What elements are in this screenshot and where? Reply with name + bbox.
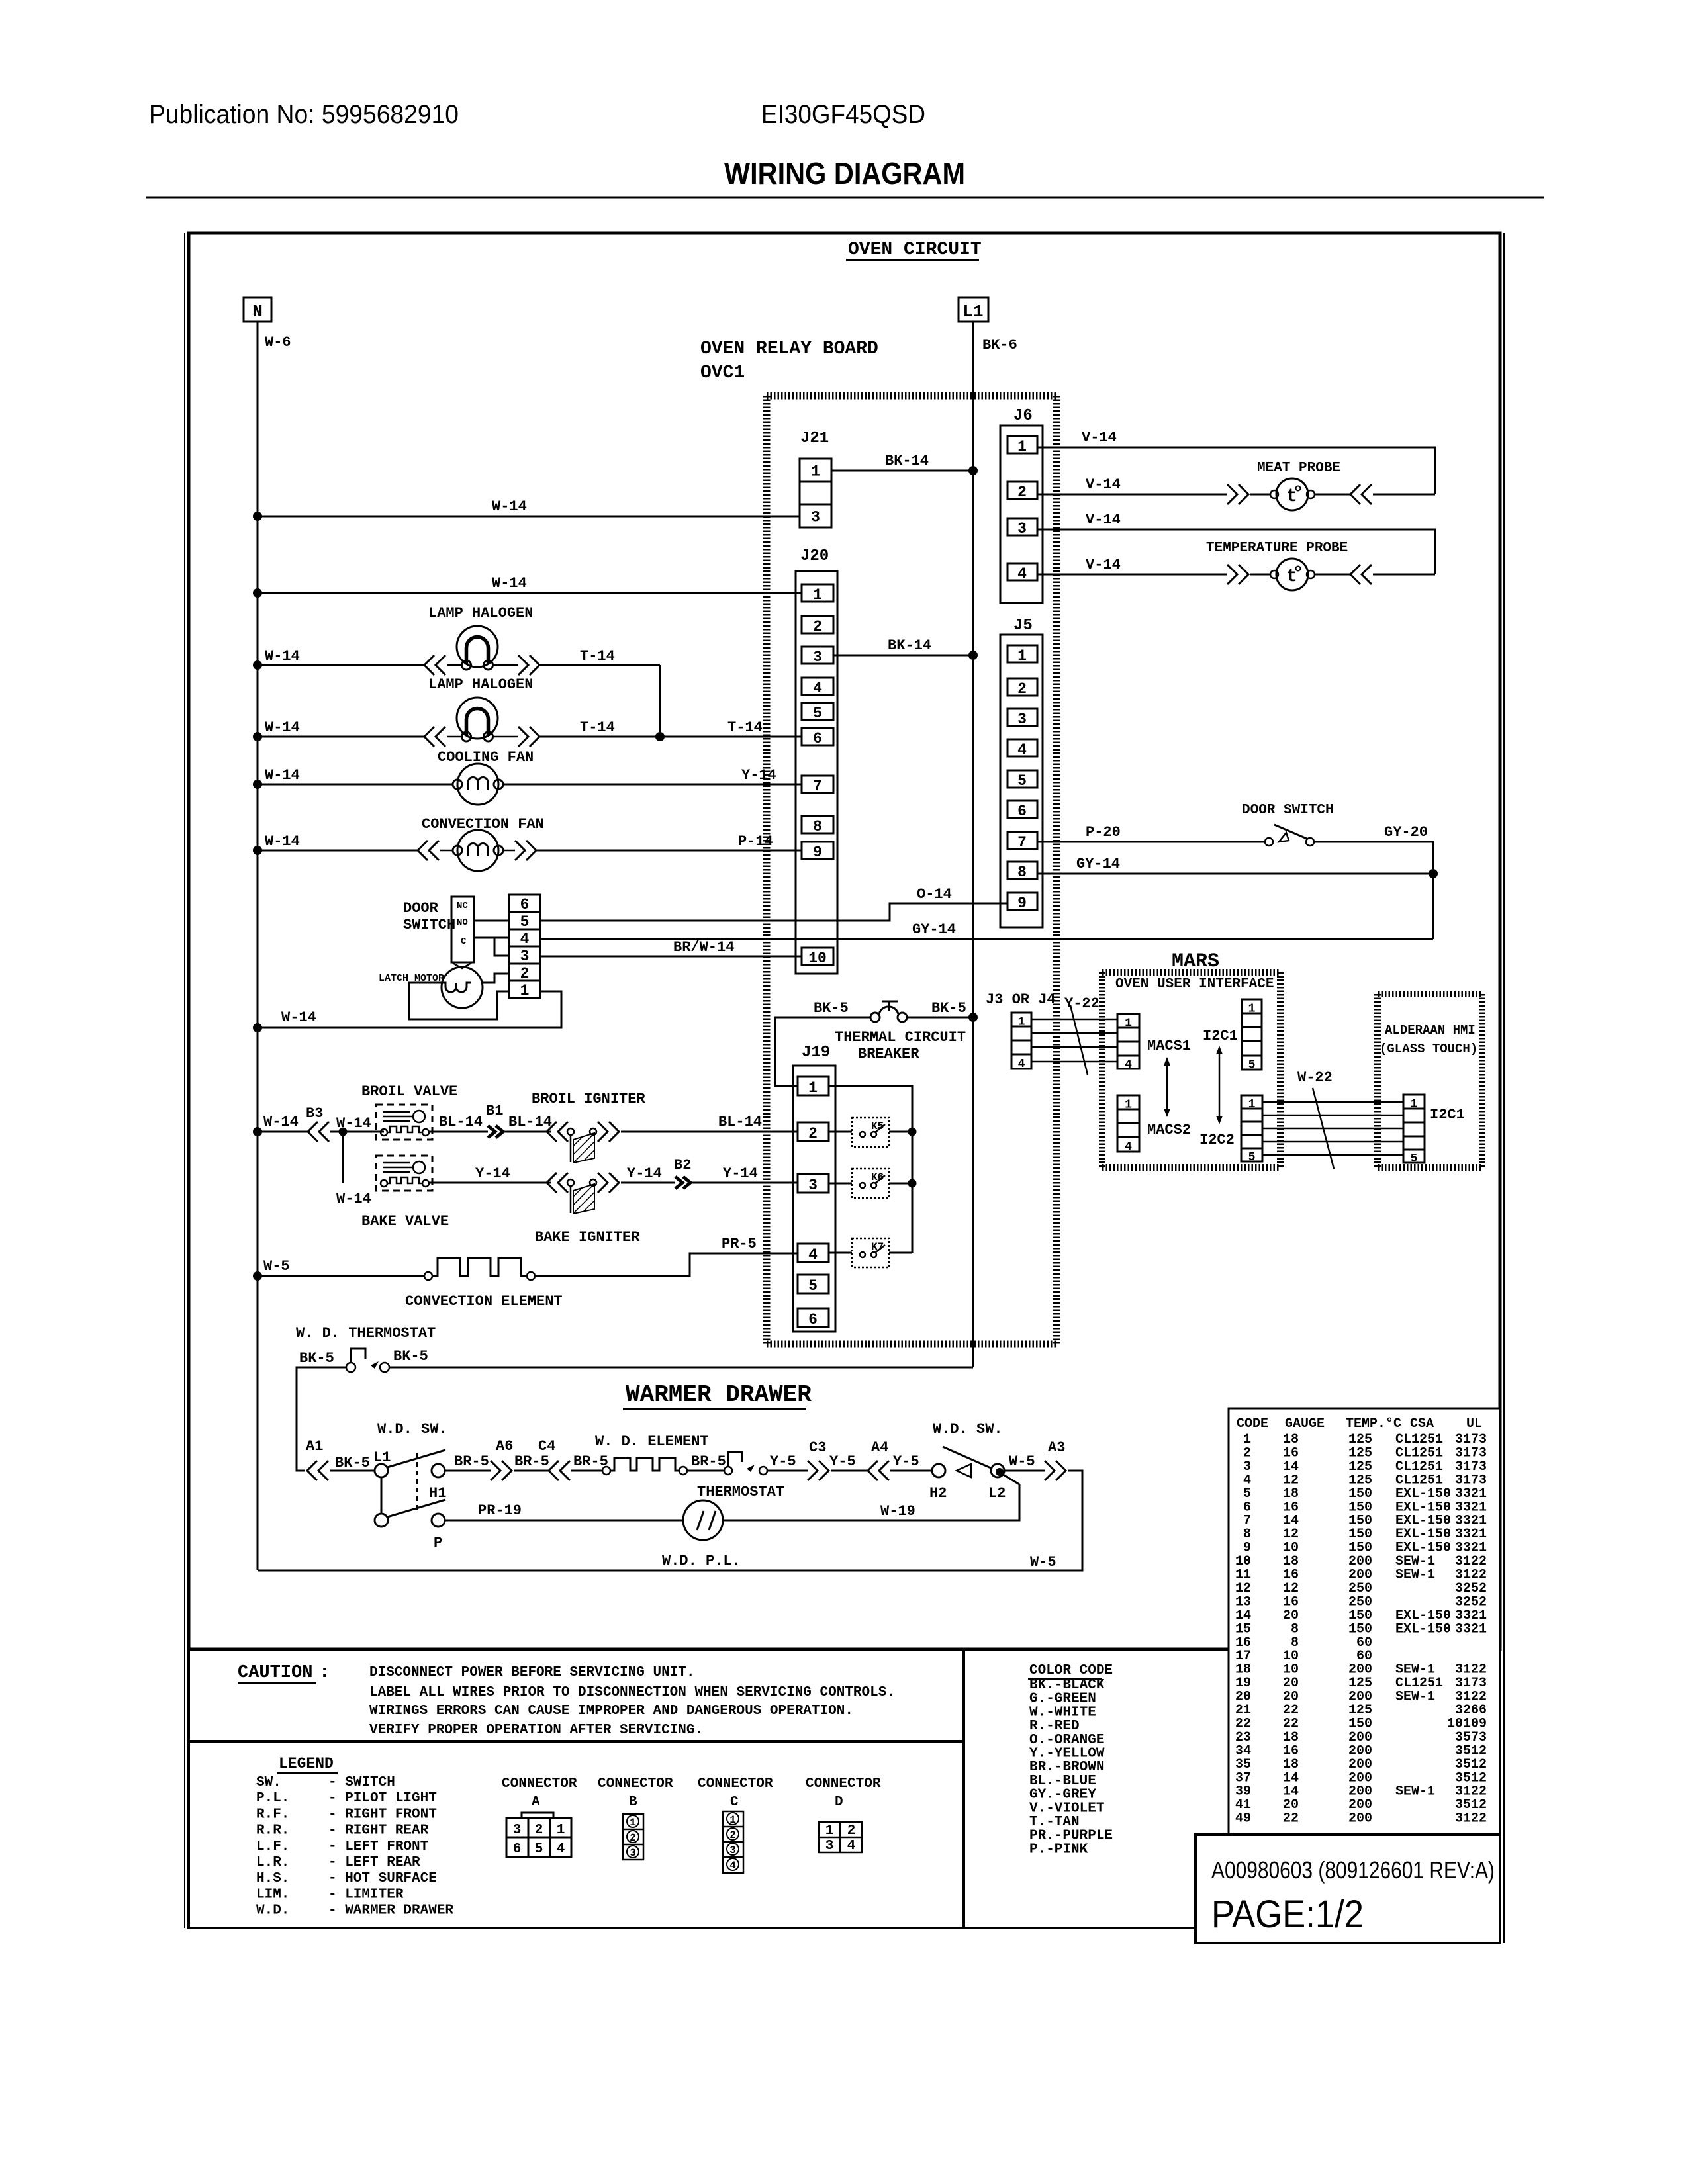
svg-text:T.-TAN: T.-TAN bbox=[1029, 1815, 1080, 1830]
svg-text:5: 5 bbox=[1248, 1059, 1256, 1072]
svg-text:Y-14: Y-14 bbox=[723, 1165, 758, 1182]
svg-text:L.F.: L.F. bbox=[256, 1839, 289, 1854]
wire K7 to relay bus bbox=[889, 1252, 912, 1254]
wire P-14 convection fan to J20 pin9 bbox=[536, 850, 802, 852]
wire BL-14 B1 to broil igniter bbox=[504, 1131, 551, 1133]
svg-text:1: 1 bbox=[1017, 647, 1027, 664]
svg-text:TEMPERATURE PROBE: TEMPERATURE PROBE bbox=[1206, 541, 1348, 556]
junction dot convection fan on N rail bbox=[253, 846, 262, 855]
harness slash Y-22 bbox=[1070, 1005, 1088, 1075]
svg-text:BL.-BLUE: BL.-BLUE bbox=[1029, 1774, 1096, 1789]
svg-text:J3 OR J4: J3 OR J4 bbox=[986, 991, 1056, 1008]
svg-text:5: 5 bbox=[535, 1842, 543, 1857]
svg-text:5: 5 bbox=[1411, 1152, 1418, 1165]
svg-text:2: 2 bbox=[1017, 484, 1027, 501]
wire V-14 J6 pin1 meat probe loop top bbox=[1037, 447, 1435, 494]
svg-text:COOLING FAN: COOLING FAN bbox=[438, 749, 534, 766]
svg-text:- HOT SURFACE: - HOT SURFACE bbox=[328, 1871, 437, 1886]
wire door switch C to cell4 bbox=[474, 937, 509, 939]
wire T-14 lamp2 to J20 pin6 bbox=[539, 736, 802, 738]
wire W-14 N rail broil row bbox=[258, 1131, 310, 1133]
svg-text:W-14: W-14 bbox=[265, 833, 300, 850]
wire W-5 A3 to bottom return bbox=[258, 1471, 1082, 1570]
connector chevrons A4 bbox=[868, 1461, 878, 1480]
svg-text:THERMOSTAT: THERMOSTAT bbox=[697, 1484, 784, 1500]
svg-text:GY.-GREY: GY.-GREY bbox=[1029, 1788, 1096, 1803]
svg-text:GY-20: GY-20 bbox=[1384, 824, 1428, 841]
junction dot W-5 on N rail bbox=[253, 1271, 262, 1281]
svg-text:7: 7 bbox=[1017, 834, 1027, 851]
svg-text:4: 4 bbox=[520, 931, 530, 948]
svg-text:MEAT PROBE: MEAT PROBE bbox=[1257, 461, 1340, 476]
wire GY-14 cell4 to right loop bbox=[540, 938, 1433, 940]
junction dot broil row on N rail bbox=[253, 1127, 262, 1136]
wire BK-14 J21 pin1 to L1 rail bbox=[831, 470, 973, 472]
svg-text:Y.-YELLOW: Y.-YELLOW bbox=[1029, 1747, 1105, 1762]
svg-text:3: 3 bbox=[825, 1839, 834, 1854]
svg-text:8: 8 bbox=[1017, 864, 1027, 881]
svg-text:CAUTION: CAUTION bbox=[238, 1663, 312, 1683]
svg-text:2: 2 bbox=[520, 965, 530, 982]
svg-text:LIM.: LIM. bbox=[256, 1887, 289, 1902]
svg-text:ALDERAAN HMI: ALDERAAN HMI bbox=[1385, 1023, 1476, 1038]
svg-text:R.R.: R.R. bbox=[256, 1823, 289, 1839]
junction dot W-14 J21 on N rail bbox=[253, 512, 262, 521]
svg-text:CONNECTOR: CONNECTOR bbox=[598, 1776, 673, 1792]
svg-text:Y-5: Y-5 bbox=[893, 1453, 919, 1470]
connector chevrons convection fan left bbox=[418, 841, 428, 860]
svg-text:BK-14: BK-14 bbox=[888, 637, 931, 654]
svg-text:4: 4 bbox=[1125, 1058, 1132, 1071]
svg-text:4: 4 bbox=[557, 1842, 565, 1857]
svg-text:CONNECTOR: CONNECTOR bbox=[698, 1776, 773, 1792]
svg-text:2: 2 bbox=[808, 1125, 818, 1142]
wire Y-14 B2 to J19 pin3 bbox=[692, 1182, 798, 1184]
svg-text:3: 3 bbox=[1017, 711, 1027, 728]
WD switch right blade bbox=[943, 1447, 992, 1469]
svg-text:BK-14: BK-14 bbox=[885, 453, 929, 469]
svg-text:V-14: V-14 bbox=[1086, 512, 1121, 528]
svg-text:N: N bbox=[252, 302, 263, 322]
wire BK-5 breaker to L1 rail bbox=[907, 1017, 973, 1019]
svg-text:A00980603 (809126601 REV:A): A00980603 (809126601 REV:A) bbox=[1211, 1856, 1495, 1884]
svg-text:3: 3 bbox=[513, 1823, 522, 1838]
svg-text:BR-5: BR-5 bbox=[454, 1453, 489, 1470]
svg-text:OVEN CIRCUIT: OVEN CIRCUIT bbox=[848, 240, 982, 260]
harness slash W-22 bbox=[1313, 1088, 1334, 1169]
wire BR-5 C4 to WD element bbox=[571, 1470, 602, 1472]
svg-text:R.F.: R.F. bbox=[256, 1807, 289, 1822]
wire K6 to relay bus bbox=[889, 1183, 912, 1185]
connector I2C2 lower 5-cell bbox=[1241, 1095, 1262, 1161]
svg-text:- RIGHT FRONT: - RIGHT FRONT bbox=[328, 1807, 437, 1822]
svg-text:WIRING DIAGRAM: WIRING DIAGRAM bbox=[724, 156, 965, 191]
wire BK-5 breaker to J19 pin1 bbox=[775, 1017, 870, 1086]
svg-text:5: 5 bbox=[1248, 1151, 1256, 1164]
svg-text:R.-RED: R.-RED bbox=[1029, 1719, 1080, 1734]
connector J3/J4 bbox=[1011, 1013, 1031, 1069]
svg-text:1: 1 bbox=[811, 463, 820, 480]
svg-text:Y-14: Y-14 bbox=[627, 1165, 662, 1182]
svg-text:W. D. ELEMENT: W. D. ELEMENT bbox=[595, 1433, 709, 1450]
svg-text:A1: A1 bbox=[306, 1438, 323, 1455]
svg-text:NC: NC bbox=[457, 901, 468, 911]
svg-text:J21: J21 bbox=[800, 430, 829, 447]
wire W-14 N rail to cooling fan bbox=[258, 784, 453, 786]
oven relay board OVC1 dashed outline bbox=[767, 392, 1056, 400]
relay K6 bbox=[852, 1169, 889, 1198]
svg-text:COLOR CODE: COLOR CODE bbox=[1029, 1663, 1113, 1678]
svg-text:W-14: W-14 bbox=[492, 575, 527, 592]
svg-text:BR.-BROWN: BR.-BROWN bbox=[1029, 1760, 1104, 1775]
svg-text:UL: UL bbox=[1466, 1416, 1482, 1432]
wire V-14 J6 pin3 temp probe loop top bbox=[1037, 529, 1435, 574]
wire Y-5 C3 to A4 bbox=[831, 1470, 868, 1472]
svg-text:10: 10 bbox=[808, 950, 827, 967]
junction dot lamp1 on N rail bbox=[253, 660, 262, 670]
svg-text:NO: NO bbox=[457, 917, 468, 928]
svg-text:LABEL ALL WIRES PRIOR TO DISCO: LABEL ALL WIRES PRIOR TO DISCONNECTION W… bbox=[369, 1685, 895, 1700]
junction dot GY-14 loop bbox=[1429, 869, 1438, 878]
connector chevrons lamp1 left bbox=[424, 655, 434, 675]
svg-text:C4: C4 bbox=[538, 1438, 555, 1455]
svg-text:THERMAL CIRCUIT: THERMAL CIRCUIT bbox=[835, 1029, 966, 1046]
svg-text:4: 4 bbox=[813, 680, 822, 697]
svg-text:DISCONNECT POWER BEFORE SERVIC: DISCONNECT POWER BEFORE SERVICING UNIT. bbox=[369, 1665, 694, 1680]
wire latch motor right to cell2 bbox=[483, 974, 509, 983]
svg-text:- PILOT LIGHT: - PILOT LIGHT bbox=[328, 1791, 437, 1806]
svg-text:OVC1: OVC1 bbox=[700, 363, 745, 383]
wire BK-14 J20 pin3 to L1 rail bbox=[833, 655, 973, 657]
wire T-14 vertical junction bbox=[659, 665, 661, 737]
svg-text:OVEN USER INTERFACE: OVEN USER INTERFACE bbox=[1115, 977, 1274, 992]
svg-text:BK-5: BK-5 bbox=[814, 1000, 849, 1017]
connector B1 chevrons bbox=[488, 1126, 495, 1138]
svg-text:P.-PINK: P.-PINK bbox=[1029, 1842, 1088, 1857]
node L1 supply box bbox=[959, 298, 988, 322]
svg-text:V-14: V-14 bbox=[1086, 557, 1121, 573]
svg-text:9: 9 bbox=[1017, 895, 1027, 912]
connector MACS2 bbox=[1117, 1095, 1139, 1152]
connector chevrons A1 bbox=[307, 1461, 317, 1480]
svg-text:4: 4 bbox=[847, 1839, 856, 1854]
caution box bbox=[189, 1649, 964, 1741]
svg-text:3: 3 bbox=[811, 509, 820, 526]
arrow I2C1-I2C2 bbox=[1219, 1052, 1221, 1118]
svg-text:A4: A4 bbox=[871, 1439, 888, 1456]
wire vertical broil to bake valve bbox=[342, 1132, 344, 1183]
svg-text:BL-14: BL-14 bbox=[508, 1114, 552, 1130]
wire latch motor left loop to cell1 left bbox=[409, 983, 509, 1019]
svg-text:P-20: P-20 bbox=[1086, 824, 1121, 841]
svg-text:BK-5: BK-5 bbox=[299, 1350, 334, 1367]
connector chevrons A3 bbox=[1045, 1461, 1055, 1480]
svg-text:Y-22: Y-22 bbox=[1064, 995, 1100, 1012]
svg-text:A6: A6 bbox=[496, 1438, 513, 1455]
wire harness W-22 I2C2 to ALDERAAN bbox=[1262, 1101, 1403, 1103]
svg-text:PR.-PURPLE: PR.-PURPLE bbox=[1029, 1829, 1113, 1844]
svg-text:W.D. P.L.: W.D. P.L. bbox=[662, 1553, 741, 1569]
svg-text:3: 3 bbox=[520, 948, 530, 965]
svg-text:W-5: W-5 bbox=[263, 1258, 290, 1275]
svg-text:Y-14: Y-14 bbox=[475, 1165, 510, 1182]
wire L1 rail to WD thermostat bbox=[389, 1367, 973, 1369]
svg-text:3122: 3122 bbox=[1455, 1811, 1487, 1827]
svg-text:W-14: W-14 bbox=[336, 1191, 371, 1207]
svg-text:LEGEND: LEGEND bbox=[279, 1755, 334, 1772]
WD switch lower pole bbox=[375, 1514, 388, 1527]
svg-text:H2: H2 bbox=[929, 1485, 947, 1502]
svg-text:J20: J20 bbox=[800, 547, 829, 565]
svg-text:- LEFT FRONT: - LEFT FRONT bbox=[328, 1839, 428, 1854]
junction dot lamp2 on N rail bbox=[253, 732, 262, 741]
junction dot K5 bus bbox=[908, 1128, 917, 1136]
svg-text:TEMP.°C: TEMP.°C bbox=[1346, 1416, 1401, 1432]
svg-text:CONNECTOR: CONNECTOR bbox=[502, 1776, 577, 1792]
svg-text:L2: L2 bbox=[988, 1485, 1006, 1502]
svg-text:CODE: CODE bbox=[1237, 1416, 1268, 1432]
wire BR-5 H1 to A6 bbox=[445, 1470, 491, 1472]
svg-text:4: 4 bbox=[1018, 1058, 1025, 1071]
svg-text:EXL-150: EXL-150 bbox=[1395, 1621, 1451, 1637]
svg-text:6: 6 bbox=[520, 896, 530, 913]
wire W-14 N rail to convection fan bbox=[258, 850, 418, 852]
wire W-14 N rail to J20 pin1 bbox=[258, 592, 802, 594]
connector I2C1 ALDERAAN bbox=[1403, 1095, 1425, 1163]
svg-text:DOOR: DOOR bbox=[403, 900, 439, 917]
svg-text:1: 1 bbox=[825, 1823, 834, 1839]
wire W-14 N rail to lamp2 bbox=[258, 736, 424, 738]
svg-text:W-14: W-14 bbox=[265, 648, 300, 664]
svg-text:3321: 3321 bbox=[1455, 1621, 1487, 1637]
svg-text:6: 6 bbox=[513, 1842, 522, 1857]
wire BL-14 broil igniter to J19 pin2 bbox=[621, 1131, 798, 1133]
svg-text:22: 22 bbox=[1283, 1811, 1299, 1827]
svg-text:Y-14: Y-14 bbox=[741, 767, 776, 784]
svg-text:SEW-1: SEW-1 bbox=[1395, 1784, 1435, 1799]
svg-text:W. D. THERMOSTAT: W. D. THERMOSTAT bbox=[296, 1325, 436, 1342]
svg-text:B3: B3 bbox=[306, 1105, 323, 1122]
svg-text:I2C1: I2C1 bbox=[1203, 1028, 1238, 1044]
svg-text:W-14: W-14 bbox=[265, 719, 300, 736]
svg-text:V-14: V-14 bbox=[1086, 477, 1121, 493]
junction dot BK-14 J20 pin3 on L1 rail bbox=[968, 651, 978, 660]
svg-text:7: 7 bbox=[813, 778, 822, 795]
svg-text:O.-ORANGE: O.-ORANGE bbox=[1029, 1733, 1104, 1748]
svg-text:B2: B2 bbox=[674, 1157, 691, 1173]
svg-text:Y-5: Y-5 bbox=[770, 1453, 796, 1470]
wire door switch C branch to cell3 bbox=[494, 938, 509, 956]
svg-text:J19: J19 bbox=[802, 1044, 830, 1062]
svg-text:6: 6 bbox=[808, 1311, 818, 1328]
svg-text:PR-19: PR-19 bbox=[478, 1502, 522, 1519]
outer sheet border bbox=[189, 233, 1500, 1649]
svg-text:2: 2 bbox=[729, 1829, 736, 1841]
svg-text:9: 9 bbox=[813, 844, 822, 861]
svg-text:PR-5: PR-5 bbox=[722, 1236, 757, 1252]
wire W-14 N rail to lamp1 bbox=[258, 664, 424, 666]
svg-text:1: 1 bbox=[630, 1817, 636, 1829]
svg-text:1: 1 bbox=[520, 982, 530, 999]
wire J19 pin3 to K6 bbox=[829, 1183, 852, 1185]
svg-text:J6: J6 bbox=[1013, 407, 1033, 425]
svg-text:BR/W-14: BR/W-14 bbox=[673, 939, 734, 956]
svg-text:Y-5: Y-5 bbox=[829, 1453, 856, 1470]
svg-text:1: 1 bbox=[729, 1814, 736, 1826]
svg-text:OVEN RELAY BOARD: OVEN RELAY BOARD bbox=[700, 339, 878, 359]
door switch connector cells bbox=[509, 895, 540, 998]
svg-text:B1: B1 bbox=[486, 1103, 503, 1119]
svg-text:PAGE:1/2: PAGE:1/2 bbox=[1211, 1893, 1364, 1936]
wire BK-5 WD thermostat to A1 bbox=[297, 1367, 346, 1471]
svg-text:CONNECTOR: CONNECTOR bbox=[806, 1776, 881, 1792]
junction dot T-14 bbox=[655, 732, 665, 741]
svg-text:BL-14: BL-14 bbox=[439, 1114, 483, 1130]
wire W-14 to broil valve bbox=[330, 1131, 384, 1133]
svg-text:BR-5: BR-5 bbox=[691, 1453, 726, 1470]
wire Y-14 bake igniter to B2 bbox=[621, 1182, 675, 1184]
svg-text:200: 200 bbox=[1348, 1811, 1372, 1827]
svg-text:W-14: W-14 bbox=[265, 767, 300, 784]
svg-text:BK-6: BK-6 bbox=[982, 337, 1017, 353]
junction dot BK-14 on L1 rail bbox=[968, 466, 978, 475]
svg-text:2: 2 bbox=[813, 618, 822, 635]
wire BL-14 broil valve to B1 bbox=[430, 1131, 488, 1133]
svg-text:3: 3 bbox=[729, 1844, 736, 1856]
wire PR-19 P to WD pilot light bbox=[445, 1520, 683, 1522]
page box bbox=[1196, 1835, 1500, 1943]
svg-text:4: 4 bbox=[729, 1860, 736, 1872]
svg-text:D: D bbox=[835, 1795, 843, 1810]
wire GY-14 J5 pin8 to loop bbox=[1037, 873, 1433, 875]
svg-text:- LIMITER: - LIMITER bbox=[328, 1887, 404, 1902]
svg-text:T-14: T-14 bbox=[727, 719, 763, 736]
wire Y-5 A4 to H2 bbox=[890, 1470, 932, 1472]
wire Y-14 cooling fan to J20 pin7 bbox=[503, 784, 802, 786]
svg-text:W.-WHITE: W.-WHITE bbox=[1029, 1705, 1096, 1720]
svg-text:W.D.: W.D. bbox=[256, 1903, 289, 1919]
svg-text:3: 3 bbox=[813, 649, 822, 666]
svg-text:T-14: T-14 bbox=[580, 719, 615, 736]
svg-text:- LEFT REAR: - LEFT REAR bbox=[328, 1855, 420, 1870]
svg-text:W.D. SW.: W.D. SW. bbox=[377, 1421, 447, 1437]
connector chevrons C3 bbox=[808, 1461, 818, 1480]
svg-text:I2C1: I2C1 bbox=[1430, 1107, 1465, 1123]
svg-text:VERIFY PROPER OPERATION AFTER: VERIFY PROPER OPERATION AFTER SERVICING. bbox=[369, 1723, 703, 1738]
svg-text:C: C bbox=[461, 936, 467, 947]
svg-text:V.-VIOLET: V.-VIOLET bbox=[1029, 1801, 1104, 1816]
wire T-14 lamp1 to junction bbox=[539, 664, 660, 666]
svg-text:DOOR SWITCH: DOOR SWITCH bbox=[1242, 803, 1334, 818]
svg-text:BAKE IGNITER: BAKE IGNITER bbox=[535, 1229, 640, 1246]
svg-text:W-5: W-5 bbox=[1030, 1554, 1056, 1570]
svg-text:LAMP HALOGEN: LAMP HALOGEN bbox=[428, 605, 533, 621]
svg-text:- RIGHT REAR: - RIGHT REAR bbox=[328, 1823, 429, 1839]
relay K5 bbox=[852, 1118, 889, 1147]
wire BR/W-14 cell3 to J20 pin10 bbox=[540, 956, 802, 958]
junction dot K6 bus bbox=[908, 1179, 917, 1188]
svg-text:5: 5 bbox=[520, 913, 530, 931]
svg-text:8: 8 bbox=[813, 818, 822, 835]
svg-text:O-14: O-14 bbox=[917, 886, 952, 903]
wire O-14 cell5 to J5 pin9 bbox=[540, 903, 1008, 921]
svg-text:C3: C3 bbox=[809, 1439, 826, 1456]
connector MACS1 bbox=[1117, 1014, 1139, 1069]
svg-text:5: 5 bbox=[813, 705, 822, 722]
svg-text:1: 1 bbox=[808, 1079, 818, 1097]
svg-text:3: 3 bbox=[808, 1177, 818, 1194]
svg-text:J5: J5 bbox=[1013, 617, 1033, 635]
svg-text:2: 2 bbox=[1017, 680, 1027, 698]
svg-text:BK-5: BK-5 bbox=[393, 1348, 428, 1365]
svg-text:SW.: SW. bbox=[256, 1775, 281, 1790]
svg-text:I2C2: I2C2 bbox=[1199, 1132, 1235, 1148]
svg-text:GY-14: GY-14 bbox=[1076, 856, 1120, 872]
contact H2 bbox=[932, 1464, 945, 1477]
svg-text:W-14: W-14 bbox=[263, 1114, 299, 1130]
connector chevrons convection fan right bbox=[515, 841, 525, 860]
svg-text:W-19: W-19 bbox=[880, 1503, 915, 1520]
wire W-19 pilot light to L2 bbox=[723, 1473, 1019, 1520]
svg-text:- SWITCH: - SWITCH bbox=[328, 1775, 395, 1790]
wire harness J3/J4 to MACS1 bbox=[1031, 1019, 1117, 1021]
wire W-5 L2 to A3 bbox=[1004, 1470, 1045, 1472]
svg-text:B: B bbox=[629, 1795, 637, 1810]
wire BR-5 A6 to C4 bbox=[514, 1470, 549, 1472]
contact P bbox=[432, 1514, 445, 1527]
svg-text:CONVECTION ELEMENT: CONVECTION ELEMENT bbox=[405, 1293, 563, 1310]
connector B2 chevrons bbox=[675, 1177, 682, 1189]
node N supply box bbox=[244, 298, 271, 322]
svg-text:MACS2: MACS2 bbox=[1147, 1122, 1191, 1138]
svg-text:BL-14: BL-14 bbox=[718, 1114, 762, 1130]
svg-text:P-14: P-14 bbox=[738, 833, 773, 850]
svg-text:L1: L1 bbox=[962, 302, 983, 322]
wire W-5 N rail to convection element bbox=[258, 1275, 424, 1277]
connector chevrons A6 bbox=[491, 1461, 500, 1480]
junction dot broil/bake split bbox=[339, 1128, 348, 1136]
svg-text:4: 4 bbox=[808, 1246, 818, 1263]
svg-text:2: 2 bbox=[630, 1832, 636, 1844]
svg-text:1: 1 bbox=[1017, 438, 1027, 455]
wire L1 rail vertical bbox=[972, 322, 974, 1367]
wire J19 pin4 to K7 bbox=[829, 1252, 852, 1254]
color code box bbox=[964, 1649, 1500, 1928]
MARS oven user interface box bbox=[1102, 969, 1280, 976]
relay K7 bbox=[852, 1238, 889, 1267]
arrow MACS1-MACS2 bbox=[1166, 1064, 1168, 1111]
svg-text:GAUGE: GAUGE bbox=[1285, 1416, 1325, 1432]
wire W-14 N rail to door cell1 right bbox=[258, 991, 561, 1028]
svg-text:P: P bbox=[434, 1535, 442, 1551]
wire BK-5 A1 to WD switch bbox=[330, 1470, 375, 1472]
svg-text:4: 4 bbox=[1125, 1140, 1132, 1154]
svg-text:C: C bbox=[730, 1795, 739, 1810]
svg-text:BROIL VALVE: BROIL VALVE bbox=[361, 1083, 457, 1100]
svg-text:6: 6 bbox=[1017, 803, 1027, 820]
svg-text:BROIL IGNITER: BROIL IGNITER bbox=[532, 1091, 645, 1107]
svg-text:6: 6 bbox=[813, 730, 822, 747]
contact H1 bbox=[432, 1464, 445, 1477]
junction dot latch bottom on N rail bbox=[253, 1023, 262, 1032]
svg-text:BK.-BLACK: BK.-BLACK bbox=[1029, 1678, 1105, 1693]
svg-text:SEW-1: SEW-1 bbox=[1395, 1568, 1435, 1583]
wire J19 pin2 to K5 bbox=[829, 1131, 852, 1133]
junction dot BK-5 on L1 rail bbox=[968, 1013, 978, 1022]
svg-text:WIRINGS ERRORS CAN CAUSE IMPRO: WIRINGS ERRORS CAN CAUSE IMPROPER AND DA… bbox=[369, 1704, 853, 1719]
svg-text:4: 4 bbox=[1017, 741, 1027, 758]
svg-text:4: 4 bbox=[1017, 565, 1027, 582]
